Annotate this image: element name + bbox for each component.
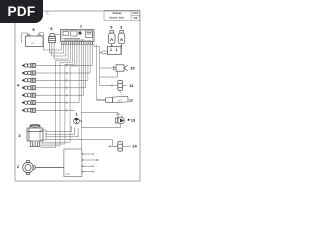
ECU U7 [61, 30, 95, 42]
svg-text:12V: 12V [31, 43, 35, 45]
wire injector 4 [36, 87, 86, 89]
injector 5 (group 4) [22, 93, 36, 97]
coil legs [49, 43, 51, 54]
svg-text:4: 4 [17, 83, 20, 88]
spark plug 8 [108, 31, 115, 47]
injector 4 (group 4) [22, 86, 36, 90]
injector connector ticks [66, 64, 68, 111]
wire connector box stub 1 [82, 153, 94, 155]
wire to sensor 11 [100, 84, 118, 86]
PDF badge [0, 0, 43, 23]
svg-text:155: 155 [133, 18, 138, 20]
comp 13 idle actuator [115, 116, 124, 124]
svg-text:7: 7 [80, 24, 83, 29]
distributor 3 [27, 125, 46, 147]
wire ECU pin13 down to injector 3 row [87, 45, 89, 81]
wire battery right to drop [39, 33, 44, 50]
crank sensor 1 [74, 118, 80, 124]
svg-text:C: C [46, 12, 50, 17]
wire ECU pin9 down to injector 6 row [78, 45, 80, 103]
wire injector 7 [36, 109, 75, 111]
wire to sensor 14 [81, 140, 118, 147]
svg-text:ALFA: ALFA [132, 12, 138, 15]
wire ECU pin5 to distributor plug pin1 [41, 45, 71, 148]
junction dot at main vertical [81, 120, 82, 121]
svg-text:+: + [120, 91, 122, 94]
relay box [108, 47, 122, 55]
svg-text:8: 8 [111, 26, 113, 30]
wire to comp13 body [81, 124, 120, 128]
wire injector 5 [36, 94, 84, 96]
wire sensor 1 stub to main vertical [80, 120, 82, 122]
wire ECU pin11 down to injector 5 row [83, 45, 85, 96]
title block [104, 10, 140, 20]
wire ECU pin3 to coil leg2 [52, 45, 66, 56]
wire ECU pin1 to battery drop [44, 45, 62, 50]
svg-text:12: 12 [129, 99, 133, 103]
injector 1 (group 4) [22, 63, 36, 67]
title block text [109, 12, 138, 20]
bottom connector box [64, 149, 82, 177]
svg-text:2: 2 [17, 164, 20, 169]
wire distributor 3 connector pin1 [46, 128, 72, 132]
svg-text:cod: cod [118, 99, 123, 102]
svg-text:Accens. iniez.: Accens. iniez. [109, 17, 125, 20]
wire ECU pin6 to distributor plug pin2 [41, 45, 73, 146]
svg-text:2 1: 2 1 [116, 113, 120, 116]
sensor 11 [118, 81, 123, 91]
svg-text:6: 6 [50, 26, 53, 31]
wire injector 1 [36, 65, 93, 67]
wire plug 9 stem to relay [121, 47, 123, 55]
svg-text:14: 14 [132, 144, 137, 149]
thermoswitch 10 [113, 67, 114, 68]
svg-text:11: 11 [129, 83, 134, 88]
wire injector 6 [36, 102, 80, 104]
svg-text:3: 3 [18, 133, 21, 138]
wire connector box stub 3 [82, 165, 94, 167]
fuse [102, 51, 108, 54]
sensor 2 [23, 161, 36, 175]
svg-text:10: 10 [130, 66, 135, 71]
wire ECU pin12 down to injector 4 row [85, 45, 87, 88]
wire battery left hook [22, 33, 28, 43]
injector 7 (group 4) [22, 108, 36, 112]
battery B5 [26, 34, 44, 46]
wire vertical to lambda sensor 12 [96, 45, 98, 100]
wire connector box stub 4 [82, 171, 94, 173]
svg-text:13: 13 [131, 118, 136, 123]
svg-text:9: 9 [120, 26, 122, 30]
svg-text:1: 1 [75, 112, 78, 117]
injector 6 (group 4) [22, 101, 36, 105]
injector 3 (group 4) [22, 78, 36, 82]
wire ECU pin10 main vertical to bottom connector box [80, 45, 82, 149]
wire distributor 3 connector pin3 [46, 130, 78, 137]
svg-text:5: 5 [32, 27, 35, 32]
spark plug 9 [118, 31, 125, 47]
wire injector 2 [36, 72, 91, 74]
sensor 14 [118, 141, 123, 151]
wire distributor 3 connector pin4 [46, 138, 81, 140]
wire stub 2 arrow extension [94, 159, 99, 161]
page frame [15, 11, 140, 181]
wire to thermoswitch 10 [100, 67, 117, 69]
wire ECU pin2 to coil leg1 [50, 45, 64, 53]
injector 2 (group 4) [22, 71, 36, 75]
wire to comp13 pins [81, 113, 118, 116]
wire injector 3 [36, 79, 88, 81]
lambda sensor 12 [105, 96, 128, 103]
wire ECU pin14 down to injector 2 row [89, 45, 91, 73]
wire vertical fuse/relay feed down to sensor 11 [94, 45, 99, 86]
ignition coil T6 [49, 34, 56, 43]
svg-text:Sistema: Sistema [113, 12, 123, 15]
wire ECU pin15 down to injector 1 row [91, 45, 93, 66]
ECU pins [61, 42, 93, 44]
wire ECU pin7 to distributor plug pin3 [41, 45, 75, 144]
wire distributor 3 connector pin2 [46, 129, 75, 135]
wire connector box stub 2 [82, 159, 94, 161]
wire thermoswitch 10 return [100, 71, 118, 77]
wire comp2 to box [35, 167, 64, 169]
wire braid to lambda sensor 12 [97, 99, 107, 101]
wire coil to ECU [55, 34, 61, 36]
wire ECU pin4 to coil leg3 [54, 45, 68, 59]
svg-text:cod: cod [66, 173, 71, 176]
wire ECU pin8 to distributor plug pin4 [41, 45, 77, 143]
